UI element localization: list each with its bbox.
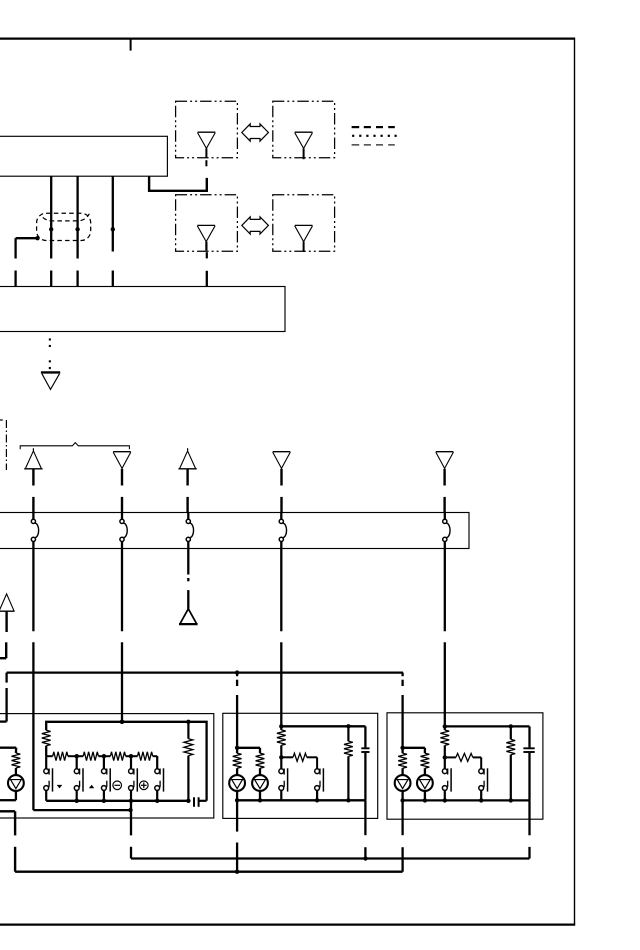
junction J15	[235, 798, 239, 802]
off-page connector down T-B	[113, 451, 131, 453]
wire stub d	[112, 271, 114, 287]
wire L0 out	[15, 791, 17, 800]
junction J7	[279, 724, 283, 728]
wire box B bottom	[237, 799, 365, 801]
wire R1 down	[45, 746, 47, 757]
wire lamp feed bus	[7, 671, 403, 673]
wire U1 pin-b	[76, 176, 78, 229]
junction J25	[443, 755, 447, 759]
wire feed left drop	[5, 673, 7, 683]
junction J18	[279, 755, 283, 759]
wire P2 down	[121, 549, 123, 632]
wire T-G stem	[5, 611, 7, 632]
resistor R12	[398, 753, 407, 768]
resistor R16	[506, 739, 515, 754]
wire stem T-C	[186, 469, 188, 486]
junction J6	[120, 720, 124, 724]
junction J26	[443, 798, 447, 802]
ground arrow G1	[41, 371, 60, 373]
wire stub c	[76, 271, 78, 287]
receiver box K2 (dash-dot)	[273, 101, 335, 157]
junction J23	[423, 798, 427, 802]
junction J21	[400, 746, 404, 750]
wire feed mid drop	[236, 673, 238, 677]
junction bottom	[75, 799, 79, 803]
junction J28	[509, 798, 513, 802]
resistor R5	[138, 752, 153, 761]
junction J8	[443, 724, 447, 728]
wire P4 down	[280, 549, 282, 632]
wire R9 down	[280, 745, 282, 757]
switch SW1	[45, 756, 47, 768]
junction J13	[235, 870, 239, 874]
wire R11 column	[347, 726, 349, 741]
resistor R15	[456, 753, 473, 761]
page border top	[0, 37, 575, 39]
off-page connector down T-E	[436, 451, 454, 453]
wire R7-L1	[236, 768, 238, 775]
wire C2 to ground bus	[364, 800, 366, 835]
junction block box	[0, 287, 285, 332]
wire R14 column	[444, 726, 446, 730]
antenna symbol AT2	[295, 131, 313, 133]
wire SW4 to ground bus	[130, 801, 132, 836]
switch SW6 right half	[315, 769, 320, 774]
wire U1 pin-a	[50, 176, 52, 229]
antenna AT2 stem	[303, 148, 305, 159]
connector pin pair P5	[444, 513, 446, 520]
wire R9 column	[280, 726, 282, 730]
off-page connector up T-C	[178, 468, 196, 470]
wire stem T-A	[32, 469, 34, 486]
wire box C bottom	[403, 799, 530, 801]
wire box B top	[281, 725, 365, 727]
wire P1 down	[32, 549, 34, 632]
resistor R3	[83, 752, 98, 761]
junction J17	[346, 724, 350, 728]
lamp L1	[229, 775, 245, 791]
junction J19	[315, 798, 319, 802]
wire R10 stub	[281, 756, 293, 758]
wire lamp L0 feed	[0, 747, 16, 749]
wire ground left	[0, 810, 15, 812]
wire C3 to ground bus	[528, 800, 530, 835]
wire R13-L4	[424, 768, 426, 775]
lamp L2	[252, 775, 268, 791]
resistor R8	[256, 753, 265, 768]
junction J10	[120, 720, 124, 724]
off-page connector up T-A	[24, 468, 42, 470]
junction bottom	[129, 799, 133, 803]
off-page connector up T-G	[0, 610, 15, 612]
symbol up (mirror-up)	[89, 785, 94, 789]
legend dashed line (thick)	[352, 126, 360, 128]
page border bottom	[0, 923, 575, 925]
junction J2	[75, 227, 79, 231]
symbol plus	[140, 781, 149, 790]
junction ladder	[102, 754, 106, 758]
receiver box K4 (dash-dot)	[273, 195, 335, 251]
junction bottom	[186, 799, 190, 803]
legend dotted line	[352, 135, 354, 137]
wire box A bottom	[46, 800, 188, 802]
antenna AT1 stem	[205, 148, 207, 157]
wire L3 to ground bus	[401, 800, 403, 835]
junction J16	[258, 798, 262, 802]
resistor R1	[42, 730, 51, 745]
off-page connector down T-D	[273, 451, 291, 453]
radio link arrow W1	[242, 124, 269, 141]
switch SW6 left half	[280, 757, 282, 769]
resistor R13	[421, 753, 430, 768]
switch SW7 left half	[444, 757, 446, 768]
capacitor C1	[193, 797, 195, 807]
wire R11 down	[347, 756, 349, 800]
lamp unit box C	[387, 713, 543, 819]
junction bottom	[155, 799, 159, 803]
page border right	[574, 38, 576, 925]
wire R8-L2	[259, 768, 261, 775]
junction J20	[346, 798, 350, 802]
junction J11	[186, 720, 190, 724]
lamp L3	[395, 775, 411, 791]
wire C feed	[403, 747, 425, 749]
wire stem T-E	[443, 469, 445, 486]
wire stem T-B	[121, 469, 123, 486]
switch SW4	[130, 756, 132, 768]
dotted wire drop	[49, 338, 51, 340]
wire stub a	[14, 271, 16, 287]
wire P5 down	[444, 549, 446, 632]
connector pin pair P3	[187, 513, 189, 520]
junction J3	[111, 227, 115, 231]
wire stem T-D	[280, 469, 282, 486]
wire ground bus 1	[131, 857, 530, 859]
junction J9	[235, 670, 239, 674]
wire L1 to ground bus	[236, 800, 238, 831]
wire box C top	[445, 725, 530, 727]
junction J1	[49, 227, 53, 231]
wire R15 stub	[445, 756, 456, 758]
antenna symbol AT1	[198, 131, 216, 133]
symbol minus	[113, 781, 122, 790]
wire R6 down	[187, 756, 189, 801]
junction J12	[363, 856, 367, 860]
lamp L4	[417, 775, 433, 791]
resistor R4	[110, 752, 125, 761]
wire L3 out	[401, 791, 403, 801]
switch SW3	[103, 756, 105, 768]
resistor R6 column	[187, 722, 189, 739]
connector pin pair P2	[121, 513, 123, 520]
switch SW7 right half	[479, 769, 484, 774]
antenna symbol AT4	[295, 224, 313, 226]
wire R16 down	[510, 755, 512, 801]
wire R16 column	[510, 726, 512, 739]
wire U1 to AT1	[149, 176, 207, 191]
antenna symbol AT3	[197, 224, 215, 226]
wire stub b	[50, 271, 52, 287]
junction J24	[509, 724, 513, 728]
junction J4 (shield)	[35, 236, 39, 240]
resistor R14	[440, 730, 449, 745]
inline connector box	[0, 513, 469, 549]
wire resistor ladder	[46, 755, 53, 757]
page border tick	[130, 39, 132, 51]
dash-dot box fragment	[0, 419, 3, 421]
junction J27	[479, 798, 483, 802]
switch SW5	[156, 756, 158, 768]
junction bottom	[102, 799, 106, 803]
shield grommet (dashed ring)	[37, 213, 91, 240]
connector pin pair P1	[32, 513, 34, 520]
wire ground bus 2	[15, 871, 403, 873]
group bracket	[20, 443, 129, 450]
capacitor C3	[523, 747, 534, 749]
switch unit box A	[0, 714, 214, 818]
resistor R7	[233, 753, 242, 768]
resistor R0	[12, 753, 21, 768]
wire box A top	[46, 722, 206, 801]
wire stub e (antenna feed)	[206, 271, 208, 287]
radio link arrow W2	[242, 217, 269, 234]
symbol down (mirror-down)	[57, 785, 63, 789]
off-page connector up T-F	[179, 623, 198, 625]
wire P1 corner	[33, 809, 130, 811]
transmitter box K1 (dash-dot)	[176, 101, 238, 157]
wire R12-L3	[401, 768, 403, 775]
antenna AT4 stem	[303, 242, 305, 252]
wire L1 out	[236, 791, 238, 800]
transmitter box K3 (dash-dot)	[176, 195, 238, 251]
junction J5	[128, 808, 132, 812]
junction J14	[235, 746, 239, 750]
wire feed right drop	[401, 673, 403, 677]
resistor R9	[277, 730, 286, 745]
wire B feed	[237, 747, 260, 749]
junction J22	[400, 798, 404, 802]
shield drain wire	[16, 237, 38, 239]
resistor R11	[344, 741, 353, 756]
resistor R10	[293, 753, 307, 761]
antenna AT3 stem	[205, 242, 207, 251]
wire ladder corner	[156, 756, 158, 758]
resistor R2	[53, 752, 68, 761]
wire R14 down	[444, 745, 446, 757]
junction ladder	[75, 754, 79, 758]
switch SW2	[76, 756, 78, 768]
lamp L0	[8, 775, 24, 791]
control unit U1 box	[0, 136, 167, 176]
junction ladder	[129, 754, 133, 758]
wire R0-L0	[15, 768, 17, 775]
wire L4 out	[424, 791, 426, 801]
lamp unit box B	[223, 713, 378, 818]
resistor R6	[184, 739, 193, 756]
capacitor C2	[361, 747, 369, 749]
legend dashed line (thin)	[352, 144, 360, 146]
wire P3 down	[187, 549, 189, 575]
wire L2 out	[259, 791, 261, 800]
wire U1 pin-c	[112, 176, 114, 251]
connector pin pair P4	[280, 513, 282, 520]
